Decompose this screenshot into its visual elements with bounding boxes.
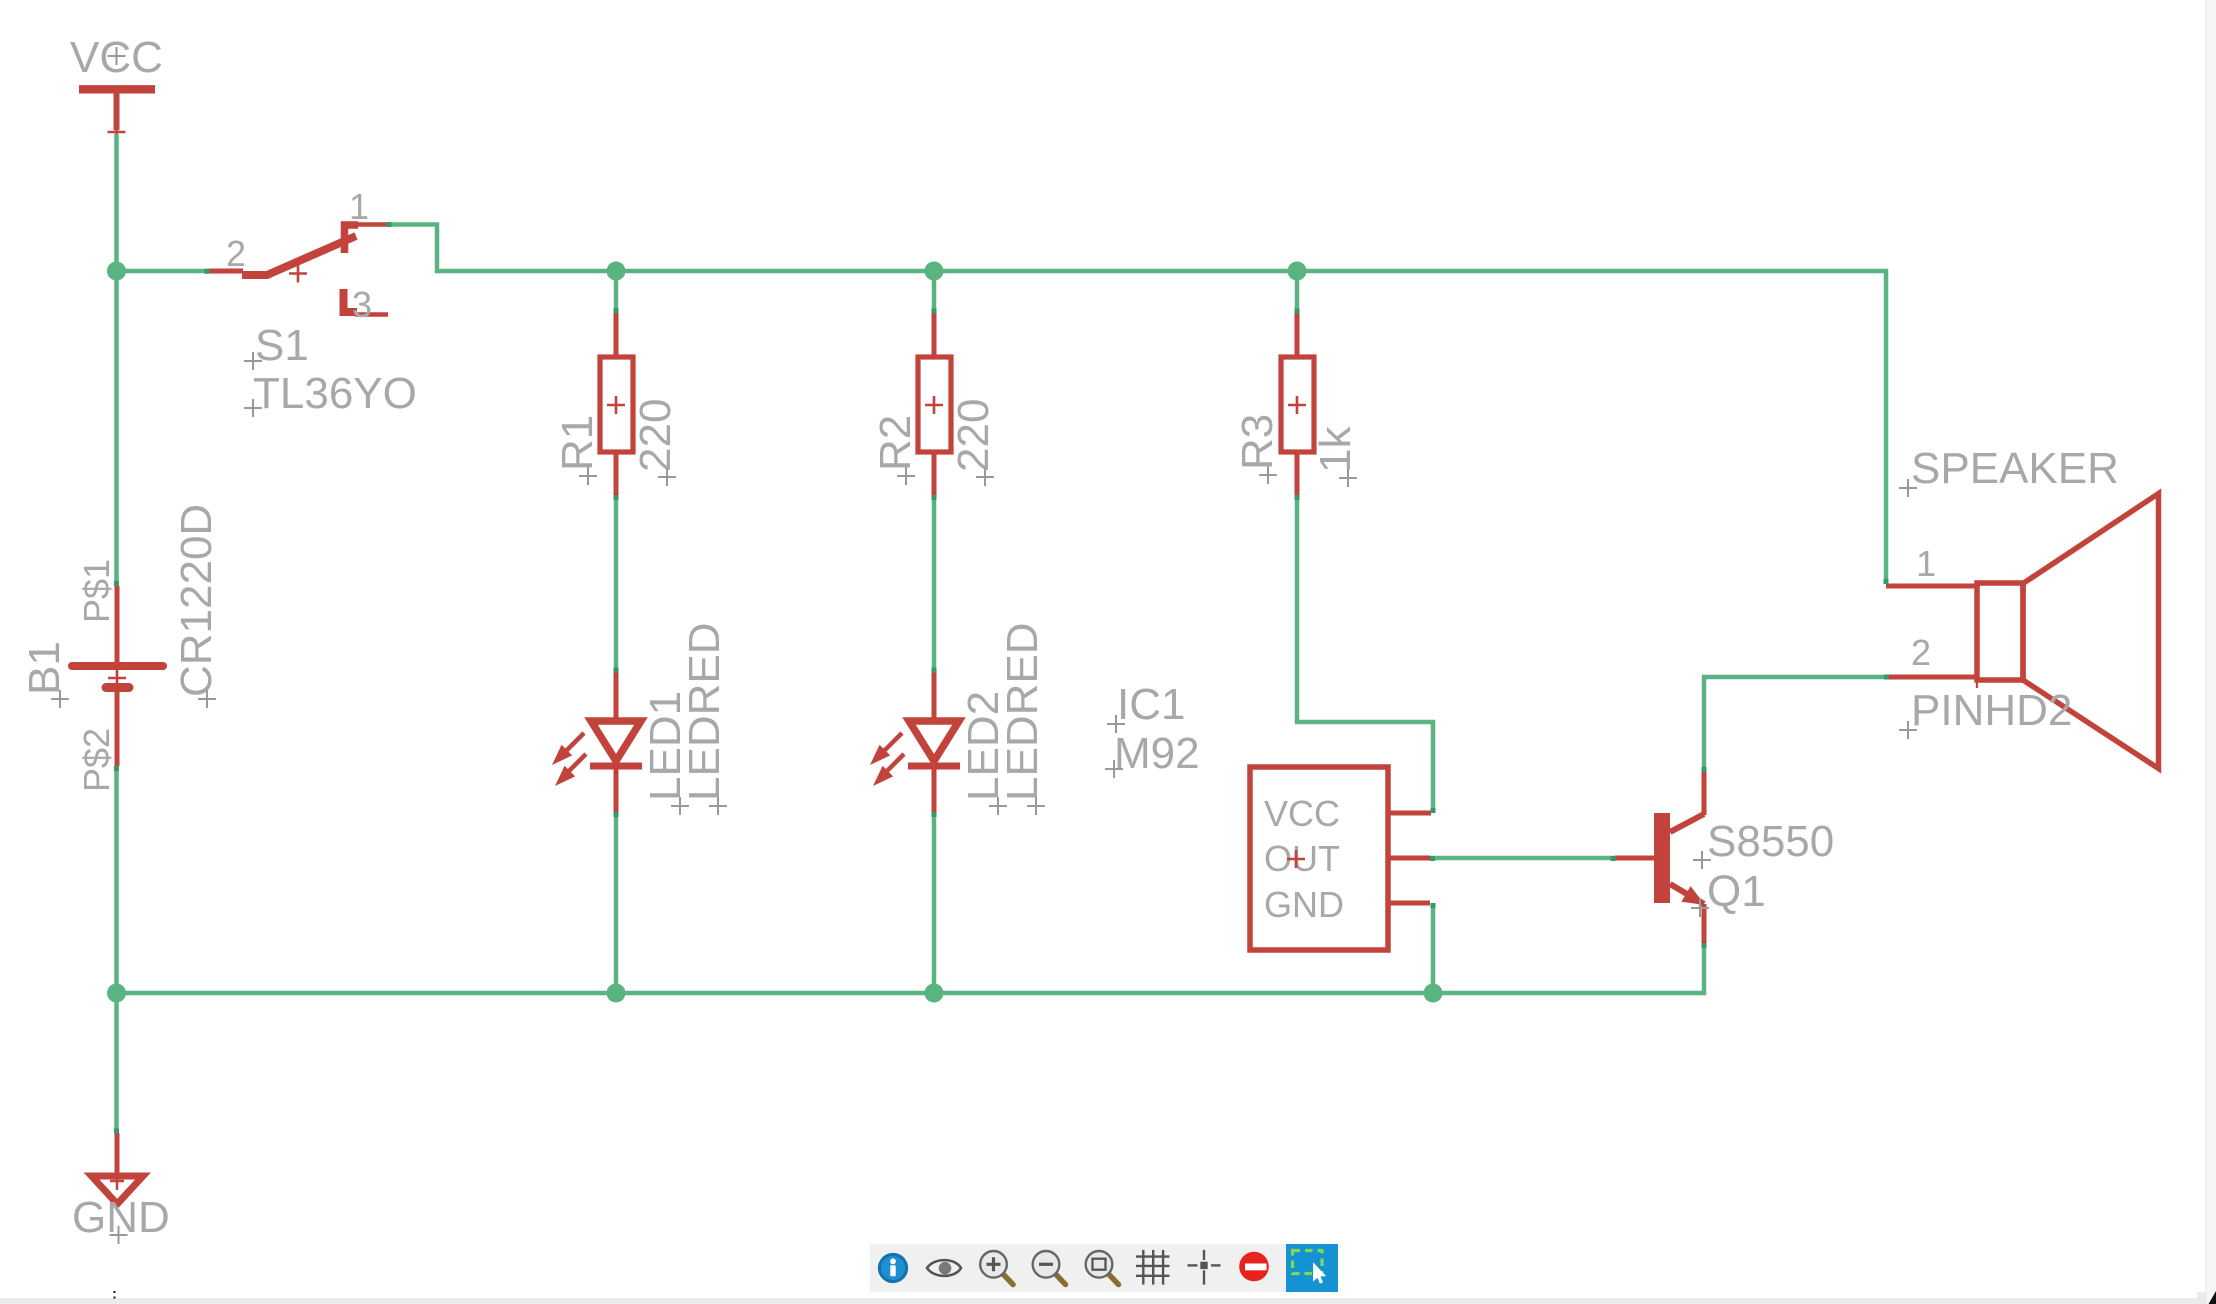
toolbar icon zoom fit bbox=[1086, 1251, 1119, 1285]
label R2 bbox=[871, 415, 920, 485]
transistor Q1 bbox=[1615, 770, 1705, 947]
value label LEDRED (LED2) bbox=[998, 623, 1047, 816]
svg-text:220: 220 bbox=[631, 399, 680, 472]
svg-text:P$2: P$2 bbox=[76, 728, 117, 792]
wire end nubs (net connection marks) bbox=[114, 222, 1889, 1134]
svg-text:R2: R2 bbox=[871, 415, 920, 471]
svg-text:GND: GND bbox=[1264, 884, 1344, 925]
wire node B to R1 bbox=[614, 271, 619, 313]
bottom page strip bbox=[0, 1299, 2216, 1304]
toolbar icon group-select (active) bbox=[1286, 1244, 1338, 1292]
value label 220 (R1) bbox=[631, 399, 680, 486]
wire VCC stem to node A bbox=[114, 134, 119, 271]
value label 1k (R3) bbox=[1311, 426, 1360, 487]
label IC1 bbox=[1107, 680, 1185, 733]
svg-text:220: 220 bbox=[949, 399, 998, 472]
wire node C to R2 bbox=[932, 271, 937, 313]
svg-text:B1: B1 bbox=[20, 641, 69, 695]
wire R3 to IC1 VCC pin bbox=[1297, 495, 1433, 813]
svg-text:TL36YO: TL36YO bbox=[253, 369, 417, 418]
svg-text:VCC: VCC bbox=[1264, 793, 1340, 834]
value label M92 bbox=[1105, 729, 1200, 778]
label S8550 (Q1) bbox=[1693, 817, 1834, 869]
node A junction VCC/battery/bus bbox=[107, 262, 126, 281]
svg-text:LEDRED: LEDRED bbox=[680, 623, 729, 802]
label S1 bbox=[244, 321, 309, 370]
node G junction bottom-left bbox=[107, 984, 126, 1003]
toolbar icon zoom in bbox=[980, 1251, 1013, 1285]
toolbar icon stop/delete bbox=[1239, 1252, 1269, 1282]
svg-text:S8550: S8550 bbox=[1707, 817, 1834, 866]
power symbol VCC bbox=[79, 89, 155, 141]
wire node A to S1 pin 2 bbox=[117, 269, 210, 274]
svg-text:1: 1 bbox=[349, 186, 369, 227]
node B junction R1/top bus bbox=[607, 262, 626, 281]
value label TL36YO bbox=[244, 369, 417, 418]
wire bottom bus bbox=[117, 947, 1705, 993]
value label LEDRED (LED1) bbox=[680, 623, 729, 816]
wire node D to R3 bbox=[1295, 271, 1300, 313]
label SPEAKER bbox=[1899, 444, 2119, 497]
LED LED1 bbox=[552, 672, 642, 812]
label LED1 bbox=[641, 691, 690, 815]
node J junction IC1 GND/bottom bus bbox=[1424, 984, 1443, 1003]
wire R2 to LED2 bbox=[932, 495, 937, 672]
svg-text:CR1220D: CR1220D bbox=[172, 504, 221, 697]
node H junction LED1/bottom bus bbox=[607, 984, 626, 1003]
wire LED2 to bottom bus bbox=[932, 812, 937, 993]
label LED2 bbox=[959, 691, 1008, 815]
svg-text:Q1: Q1 bbox=[1707, 867, 1766, 916]
mouse cursor clipped at corner bbox=[2209, 1291, 2216, 1304]
wire R1 to LED1 bbox=[614, 495, 619, 672]
value label 220 (R2) bbox=[949, 399, 998, 486]
ground symbol GND bbox=[92, 1133, 144, 1204]
svg-text:R1: R1 bbox=[553, 415, 602, 471]
toolbar icon info bbox=[879, 1254, 906, 1281]
svg-text:R3: R3 bbox=[1233, 414, 1282, 470]
value label PINHD2 bbox=[1899, 686, 2072, 739]
label R1 bbox=[553, 415, 602, 485]
label Q1 bbox=[1691, 867, 1766, 917]
node C junction R2/top bus bbox=[925, 262, 944, 281]
wire top bus bbox=[437, 271, 1886, 582]
wire Q1 collector to speaker pin 2 bbox=[1704, 677, 1888, 770]
speaker connector SPEAKER/PINHD2 bbox=[1886, 494, 2159, 769]
svg-text:SPEAKER: SPEAKER bbox=[1911, 444, 2119, 493]
battery B1 bbox=[72, 586, 163, 766]
svg-text:1: 1 bbox=[1916, 543, 1936, 584]
resistor R2 bbox=[918, 313, 951, 495]
wire node G to GND symbol bbox=[114, 993, 119, 1133]
svg-text:2: 2 bbox=[1911, 632, 1931, 673]
svg-text:2: 2 bbox=[226, 233, 246, 274]
value label CR1220D bbox=[172, 504, 221, 708]
svg-text:PINHD2: PINHD2 bbox=[1911, 686, 2072, 735]
svg-text:LEDRED: LEDRED bbox=[998, 623, 1047, 802]
toolbar icon crosshair bbox=[1188, 1250, 1221, 1285]
svg-text:P$1: P$1 bbox=[76, 559, 117, 623]
wire battery P$2 to node G bbox=[114, 766, 119, 993]
svg-text:IC1: IC1 bbox=[1117, 680, 1185, 729]
label B1 bbox=[20, 641, 69, 708]
net label GND bbox=[72, 1193, 170, 1244]
wire node A to battery B1 pin P$1 bbox=[114, 271, 119, 586]
LED LED2 bbox=[870, 672, 960, 812]
toolbar icon grid bbox=[1136, 1250, 1170, 1285]
node D junction R3/top bus bbox=[1288, 262, 1307, 281]
IC1 origin cross bbox=[1287, 850, 1305, 868]
wire IC1 GND pin to bottom bus bbox=[1431, 903, 1436, 993]
node I junction LED2/bottom bus bbox=[925, 984, 944, 1003]
toolbar icon zoom out bbox=[1033, 1251, 1066, 1285]
label R3 bbox=[1233, 414, 1282, 484]
wire IC1 OUT to Q1 base bbox=[1430, 856, 1615, 861]
toolbar background strip bbox=[870, 1244, 1286, 1292]
resistor R3 bbox=[1281, 313, 1314, 495]
wire LED1 to bottom bus bbox=[614, 812, 619, 993]
svg-text:M92: M92 bbox=[1114, 729, 1200, 778]
svg-text:3: 3 bbox=[352, 284, 372, 325]
right scrollbar track bbox=[2206, 0, 2216, 1304]
switch S1 bbox=[209, 225, 388, 315]
net label VCC bbox=[70, 33, 163, 82]
IC U1 (IC1 M92) bbox=[1250, 767, 1431, 950]
resistor R1 bbox=[600, 313, 633, 495]
svg-text:1k: 1k bbox=[1311, 426, 1360, 473]
svg-text:S1: S1 bbox=[255, 321, 309, 370]
toolbar icon eye bbox=[927, 1260, 961, 1276]
wire S1 pin 1 to top bus bbox=[387, 225, 438, 274]
